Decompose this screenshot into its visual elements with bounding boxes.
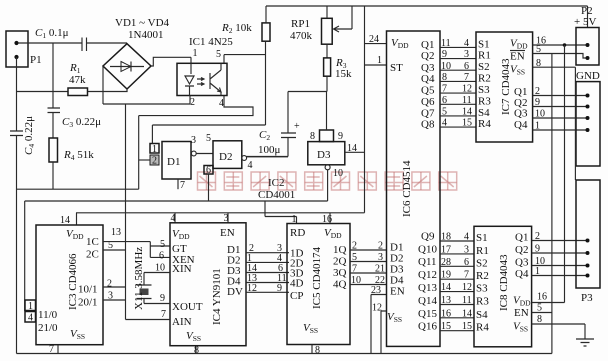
svg-text:1C: 1C <box>86 236 99 248</box>
svg-text:2C: 2C <box>86 249 99 261</box>
svg-text:Q4: Q4 <box>421 73 435 85</box>
svg-text:6: 6 <box>442 95 447 106</box>
svg-text:R3: R3 <box>478 95 491 107</box>
svg-text:14: 14 <box>462 107 472 118</box>
svg-text:Q3: Q3 <box>515 257 529 269</box>
svg-text:8: 8 <box>310 131 315 142</box>
svg-text:12: 12 <box>247 283 257 294</box>
svg-text:2: 2 <box>535 231 540 242</box>
svg-text:6: 6 <box>464 61 469 72</box>
svg-text:8: 8 <box>194 345 199 356</box>
svg-text:6: 6 <box>159 251 164 262</box>
svg-text:2: 2 <box>535 86 540 97</box>
svg-text:9: 9 <box>277 283 282 294</box>
svg-text:IC3 CD4066: IC3 CD4066 <box>67 253 79 310</box>
svg-text:1N4001: 1N4001 <box>128 29 163 41</box>
svg-text:15k: 15k <box>335 68 352 80</box>
svg-text:8: 8 <box>442 72 447 83</box>
svg-text:5: 5 <box>442 107 447 118</box>
svg-text:IC8 CD4043: IC8 CD4043 <box>498 254 510 311</box>
svg-text:28: 28 <box>441 257 451 268</box>
svg-text:CD4001: CD4001 <box>258 189 295 201</box>
svg-text:13: 13 <box>441 295 451 306</box>
svg-text:100μ: 100μ <box>258 144 281 156</box>
svg-text:C1 0.1μ: C1 0.1μ <box>35 27 69 40</box>
svg-text:7: 7 <box>352 264 357 275</box>
svg-text:10: 10 <box>351 275 361 286</box>
svg-text:EN: EN <box>510 51 525 63</box>
svg-text:EN: EN <box>390 286 405 298</box>
svg-text:20/1: 20/1 <box>78 297 98 309</box>
svg-text:Q8: Q8 <box>421 119 435 131</box>
svg-text:3: 3 <box>191 135 196 146</box>
svg-text:10: 10 <box>155 263 165 274</box>
svg-text:D3: D3 <box>317 149 331 161</box>
svg-text:9: 9 <box>338 131 343 142</box>
svg-text:Q4: Q4 <box>514 119 528 131</box>
svg-text:Q1: Q1 <box>421 39 434 51</box>
svg-text:4: 4 <box>464 232 469 243</box>
svg-text:IC2: IC2 <box>268 177 285 189</box>
svg-text:7: 7 <box>464 270 469 281</box>
svg-text:2: 2 <box>152 156 157 167</box>
svg-text:S2: S2 <box>478 61 490 73</box>
svg-text:2: 2 <box>352 241 357 252</box>
svg-text:3: 3 <box>378 252 383 263</box>
svg-text:1Q: 1Q <box>333 244 347 256</box>
svg-text:12: 12 <box>462 84 472 95</box>
svg-text:IC6 CD4514: IC6 CD4514 <box>401 160 413 217</box>
svg-text:R4: R4 <box>476 322 489 334</box>
svg-text:1: 1 <box>535 266 540 277</box>
svg-text:10: 10 <box>333 168 343 179</box>
svg-text:1: 1 <box>535 121 540 132</box>
svg-text:4: 4 <box>442 118 447 129</box>
svg-text:21/0: 21/0 <box>38 322 58 334</box>
svg-text:3: 3 <box>464 49 469 60</box>
svg-text:15: 15 <box>462 321 472 332</box>
svg-text:5: 5 <box>160 239 165 250</box>
svg-text:1: 1 <box>152 144 157 155</box>
svg-text:19: 19 <box>441 270 451 281</box>
svg-text:11: 11 <box>441 38 451 49</box>
svg-text:16: 16 <box>441 308 451 319</box>
svg-text:R2 10k: R2 10k <box>221 22 252 35</box>
svg-text:Q2: Q2 <box>421 50 434 62</box>
svg-text:Q3: Q3 <box>421 62 435 74</box>
svg-text:C3 0.22μ: C3 0.22μ <box>62 116 101 129</box>
svg-text:P1: P1 <box>30 54 42 66</box>
svg-text:9: 9 <box>442 49 447 60</box>
svg-text:1: 1 <box>28 301 33 312</box>
svg-text:5: 5 <box>537 303 542 314</box>
svg-text:D1: D1 <box>167 156 180 168</box>
svg-text:7: 7 <box>161 309 166 320</box>
svg-text:S3: S3 <box>476 283 488 295</box>
svg-text:14: 14 <box>347 143 357 154</box>
svg-text:10: 10 <box>535 109 545 120</box>
svg-text:Q2: Q2 <box>515 244 528 256</box>
svg-text:S1: S1 <box>476 232 488 244</box>
svg-text:15: 15 <box>441 321 451 332</box>
svg-text:17: 17 <box>441 244 451 255</box>
svg-text:Q13: Q13 <box>418 282 437 294</box>
svg-text:ST: ST <box>390 62 403 74</box>
svg-text:Q6: Q6 <box>421 96 435 108</box>
svg-text:S4: S4 <box>476 309 488 321</box>
svg-text:8: 8 <box>536 58 541 69</box>
svg-text:3: 3 <box>464 244 469 255</box>
svg-text:RD: RD <box>290 227 305 239</box>
svg-text:10/1: 10/1 <box>78 284 98 296</box>
svg-text:16: 16 <box>537 292 547 303</box>
svg-text:6: 6 <box>464 257 469 268</box>
svg-text:S4: S4 <box>478 107 490 119</box>
svg-text:9: 9 <box>535 244 540 255</box>
svg-text:18: 18 <box>441 232 451 243</box>
svg-text:Q10: Q10 <box>418 243 437 255</box>
svg-text:S3: S3 <box>478 84 490 96</box>
svg-text:2Q: 2Q <box>333 256 347 268</box>
svg-text:9: 9 <box>535 97 540 108</box>
svg-text:DV: DV <box>227 286 243 298</box>
svg-text:2: 2 <box>107 279 112 290</box>
svg-text:4D: 4D <box>290 278 304 290</box>
svg-text:XOUT: XOUT <box>172 301 203 313</box>
svg-text:1: 1 <box>193 48 198 59</box>
svg-text:15: 15 <box>462 118 472 129</box>
svg-text:5: 5 <box>216 49 221 60</box>
svg-text:Q7: Q7 <box>421 108 435 120</box>
svg-text:IC4 YN9101: IC4 YN9101 <box>211 268 223 325</box>
svg-text:Q1: Q1 <box>515 232 528 244</box>
svg-text:CP: CP <box>290 290 303 302</box>
svg-text:47k: 47k <box>69 74 86 86</box>
svg-text:Q9: Q9 <box>421 230 435 242</box>
svg-text:Q16: Q16 <box>418 321 437 333</box>
svg-text:5: 5 <box>206 133 211 144</box>
svg-text:RP1: RP1 <box>291 18 310 30</box>
svg-text:AIN: AIN <box>172 316 192 328</box>
svg-text:9: 9 <box>160 293 165 304</box>
svg-text:Q5: Q5 <box>421 85 435 97</box>
svg-text:S2: S2 <box>476 257 488 269</box>
svg-text:24: 24 <box>369 34 379 45</box>
svg-text:EN: EN <box>220 227 235 239</box>
svg-text:7: 7 <box>180 180 185 191</box>
svg-text:14: 14 <box>462 308 472 319</box>
svg-text:VD1 ~ VD4: VD1 ~ VD4 <box>115 17 170 29</box>
svg-text:4: 4 <box>28 313 33 324</box>
svg-text:R4: R4 <box>478 118 491 130</box>
svg-text:R3: R3 <box>476 296 489 308</box>
svg-text:470k: 470k <box>290 30 313 42</box>
svg-text:IC5 CD40174: IC5 CD40174 <box>311 246 323 309</box>
svg-text:14: 14 <box>441 282 451 293</box>
svg-text:IC1 4N25: IC1 4N25 <box>189 36 233 48</box>
svg-text:R2: R2 <box>476 270 489 282</box>
svg-text:12: 12 <box>462 282 472 293</box>
svg-text:X11 3.58MHz: X11 3.58MHz <box>133 247 145 310</box>
svg-text:Q15: Q15 <box>418 308 437 320</box>
svg-text:+ 5V: + 5V <box>574 16 596 28</box>
svg-text:4: 4 <box>219 98 224 109</box>
svg-text:Q12: Q12 <box>418 269 437 281</box>
svg-text:4: 4 <box>464 38 469 49</box>
svg-text:R1: R1 <box>476 245 489 257</box>
svg-text:1: 1 <box>377 55 382 66</box>
svg-text:EN: EN <box>514 307 529 319</box>
svg-text:2: 2 <box>190 97 195 108</box>
svg-text:XIN: XIN <box>172 263 192 275</box>
svg-text:+: + <box>294 121 300 132</box>
svg-text:R1: R1 <box>478 50 491 62</box>
svg-text:GND: GND <box>576 70 600 82</box>
svg-text:S1: S1 <box>478 38 490 50</box>
svg-text:4: 4 <box>248 160 253 171</box>
svg-text:8: 8 <box>537 314 542 325</box>
svg-text:Q3: Q3 <box>514 108 528 120</box>
svg-text:P3: P3 <box>581 292 593 304</box>
svg-text:3Q: 3Q <box>333 267 347 279</box>
svg-text:R2: R2 <box>478 72 491 84</box>
svg-text:Q11: Q11 <box>418 256 437 268</box>
svg-text:Q4: Q4 <box>515 268 529 280</box>
svg-text:Q14: Q14 <box>418 295 437 307</box>
svg-text:5: 5 <box>536 44 541 55</box>
svg-text:2: 2 <box>378 241 383 252</box>
svg-text:5: 5 <box>352 252 357 263</box>
svg-text:8: 8 <box>315 345 320 356</box>
svg-text:21: 21 <box>375 264 385 275</box>
svg-text:11/0: 11/0 <box>38 309 58 321</box>
svg-text:7: 7 <box>442 84 447 95</box>
svg-text:10: 10 <box>441 61 451 72</box>
svg-text:11: 11 <box>462 295 472 306</box>
svg-text:R4 51k: R4 51k <box>63 149 94 162</box>
svg-text:C4 0.22μ: C4 0.22μ <box>23 116 36 155</box>
svg-text:D2: D2 <box>219 151 232 163</box>
svg-text:11: 11 <box>462 95 472 106</box>
svg-text:4Q: 4Q <box>333 279 347 291</box>
svg-text:13: 13 <box>111 227 121 238</box>
svg-text:7: 7 <box>464 72 469 83</box>
